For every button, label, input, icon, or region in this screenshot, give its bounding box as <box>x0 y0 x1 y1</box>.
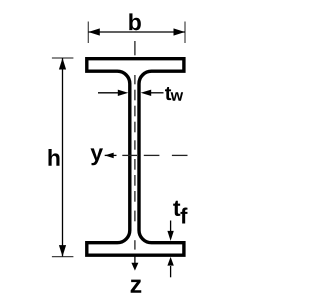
dimension b: arrowheads <box>88 28 100 35</box>
z axis arrow <box>134 257 136 265</box>
tf arrows <box>170 221 172 232</box>
label z <box>131 280 142 293</box>
dimension h: line <box>62 58 64 257</box>
y axis arrow <box>105 154 117 156</box>
centerline dashes in web <box>134 75 136 84</box>
centerline dash above beam <box>134 41 136 55</box>
dimension h: extension ticks <box>52 58 74 257</box>
I-beam section outline <box>87 59 184 256</box>
tw arrows <box>98 92 119 94</box>
label tw <box>165 87 171 100</box>
vertical centerline (z axis) dashes <box>134 41 136 250</box>
label b <box>129 13 141 30</box>
label h <box>48 149 59 166</box>
horizontal centerline (y axis) dashes <box>122 154 187 156</box>
centerline dash crossing bottom flange <box>134 240 136 249</box>
label y <box>91 148 103 165</box>
label tf <box>173 201 180 216</box>
dimension h: arrowheads <box>59 58 66 70</box>
dimension b: extension ticks <box>88 22 185 44</box>
dimension b: line <box>88 31 185 33</box>
